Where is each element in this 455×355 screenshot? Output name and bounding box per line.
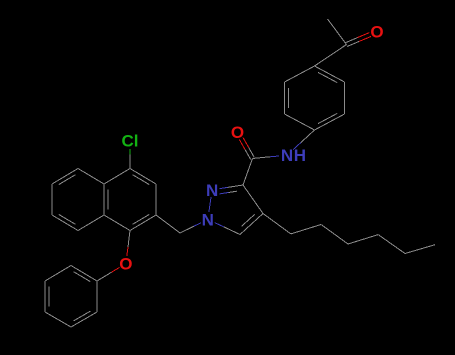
double bond aryl C1=C2 bottom-right edge (315, 114, 345, 130)
bond hexyl C2'-C3' (321, 225, 348, 245)
bond aryl C4-acetyl carbonyl carbon (315, 45, 347, 67)
inner line phenoxy bottom-right (74, 311, 91, 321)
svg-text:N: N (281, 146, 293, 165)
bond C5-N1 (half blue) (224, 227, 240, 235)
bond naphthalene C4a-C5 (78, 169, 104, 185)
bond phenoxy ortho'-ipso right edge (96, 281, 98, 312)
bond acetyl C-CH3 methyl (328, 19, 347, 45)
bond aryl C4-C5 top-left edge (285, 66, 315, 82)
inner line phenoxy top-right (74, 272, 91, 282)
double bond phenoxy ipso=ortho top-right edge (71, 266, 97, 282)
bond O-phenyl ipso (half red) (112, 267, 120, 272)
double bond acetyl C=O (half red) (347, 41, 359, 46)
bond C3-amide carbonyl carbon (243, 159, 253, 186)
bond naphthalene C6-C7 left edge (51, 184, 53, 215)
double bond C2=C1 naphthalene bottom-right edge (130, 215, 156, 231)
double bond C4=C5 pyrazole (240, 214, 263, 235)
double bond aryl C5=C6 left edge (284, 82, 286, 114)
bond naphthalene C4-C4a (104, 169, 130, 185)
double bond C7=C8 left-ring bottom edge (52, 215, 78, 231)
bond N1-N2 (blue) (209, 197, 211, 212)
double bond C4=C3 naphthalene top-right edge (130, 169, 156, 185)
bond hexyl C4'-C5' (378, 235, 405, 254)
bond C4-hexyl C1' (263, 214, 291, 234)
bond naphthalene C3-C2 right edge (155, 184, 157, 215)
bond CH2-N1 (half blue) (180, 226, 194, 233)
svg-text:Cl: Cl (122, 132, 139, 151)
svg-text:O: O (119, 255, 132, 274)
bond amide C-N (half blue) (253, 157, 270, 159)
bond aryl C2-C3 right edge (344, 82, 346, 114)
bond hexyl C3'-C4' (348, 235, 378, 244)
bond C3-C4 pyrazole (243, 185, 263, 214)
svg-text:O: O (370, 23, 383, 42)
bond aryl C6-C1 bottom-left edge (285, 114, 315, 130)
inner line N2=C3 (220, 193, 229, 194)
inner line aryl C1=C2 (318, 113, 337, 123)
inner line aryl C3=C4 (318, 72, 337, 82)
svg-text:O: O (231, 123, 244, 142)
double bond phenoxy meta'=ortho' bottom-right edge (71, 312, 97, 327)
inner line phenoxy left (48, 287, 50, 307)
bond NH-aryl C1 (half blue) (293, 143, 301, 150)
svg-text:N: N (202, 210, 214, 229)
bond C4-Cl (half green) (129, 149, 131, 155)
inner line C2=C1 (133, 214, 150, 224)
double bond amide C=O (half red) (249, 148, 255, 158)
bond naphthalene C2-CH2 benzylic (156, 215, 180, 233)
inner line C5=C6 (59, 175, 76, 185)
inner line C4=C3 (133, 175, 150, 185)
bond naphthalene C8-C8a (78, 215, 104, 231)
double bond N2=C3 (half blue) (220, 187, 228, 188)
bond phenoxy para-meta' bottom-left edge (45, 312, 71, 327)
inner line aryl C5=C6 (288, 88, 290, 108)
double bond inner line ring-fusion edge (107, 190, 109, 210)
svg-text:N: N (206, 181, 218, 200)
bond hexyl C5'-C6' terminal methyl (405, 245, 435, 254)
bond C4a-C8a ring fusion edge (naphthalene) (103, 184, 105, 215)
inner line C4=C5 (242, 214, 255, 226)
bond hexyl C1'-C2' (291, 225, 321, 234)
inner line C7=C8 (59, 214, 76, 224)
bond phenoxy ortho-meta top-left edge (45, 266, 71, 282)
svg-text:H: H (294, 146, 306, 165)
bond naphthalene C1-O ether (half red) (127, 247, 128, 256)
double bond C5=C6 left-ring top edge (52, 169, 78, 185)
double bond phenoxy meta=para left edge (44, 281, 46, 312)
double bond aryl C3=C4 top-right edge (315, 66, 345, 82)
bond naphthalene C1-C8a (104, 215, 130, 231)
